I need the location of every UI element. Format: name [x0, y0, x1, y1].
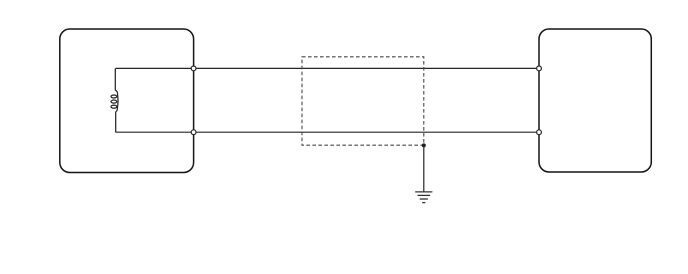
wire top inner (left box): [115, 67, 193, 69]
node bottom-left: [191, 130, 196, 135]
shielded cable (dashed box): [302, 57, 424, 145]
wire ground lead: [423, 145, 425, 192]
wire bottom (between boxes): [193, 131, 539, 133]
wire top (between boxes): [193, 67, 539, 69]
ground: [415, 192, 432, 203]
node top-right: [537, 66, 542, 71]
right device box: [539, 29, 651, 172]
inductor L1: [111, 68, 118, 132]
node bottom-right: [537, 130, 542, 135]
node top-left: [191, 66, 196, 71]
left device box: [60, 29, 194, 173]
junction dot: [422, 143, 426, 147]
wire bottom inner (left box): [115, 131, 193, 133]
